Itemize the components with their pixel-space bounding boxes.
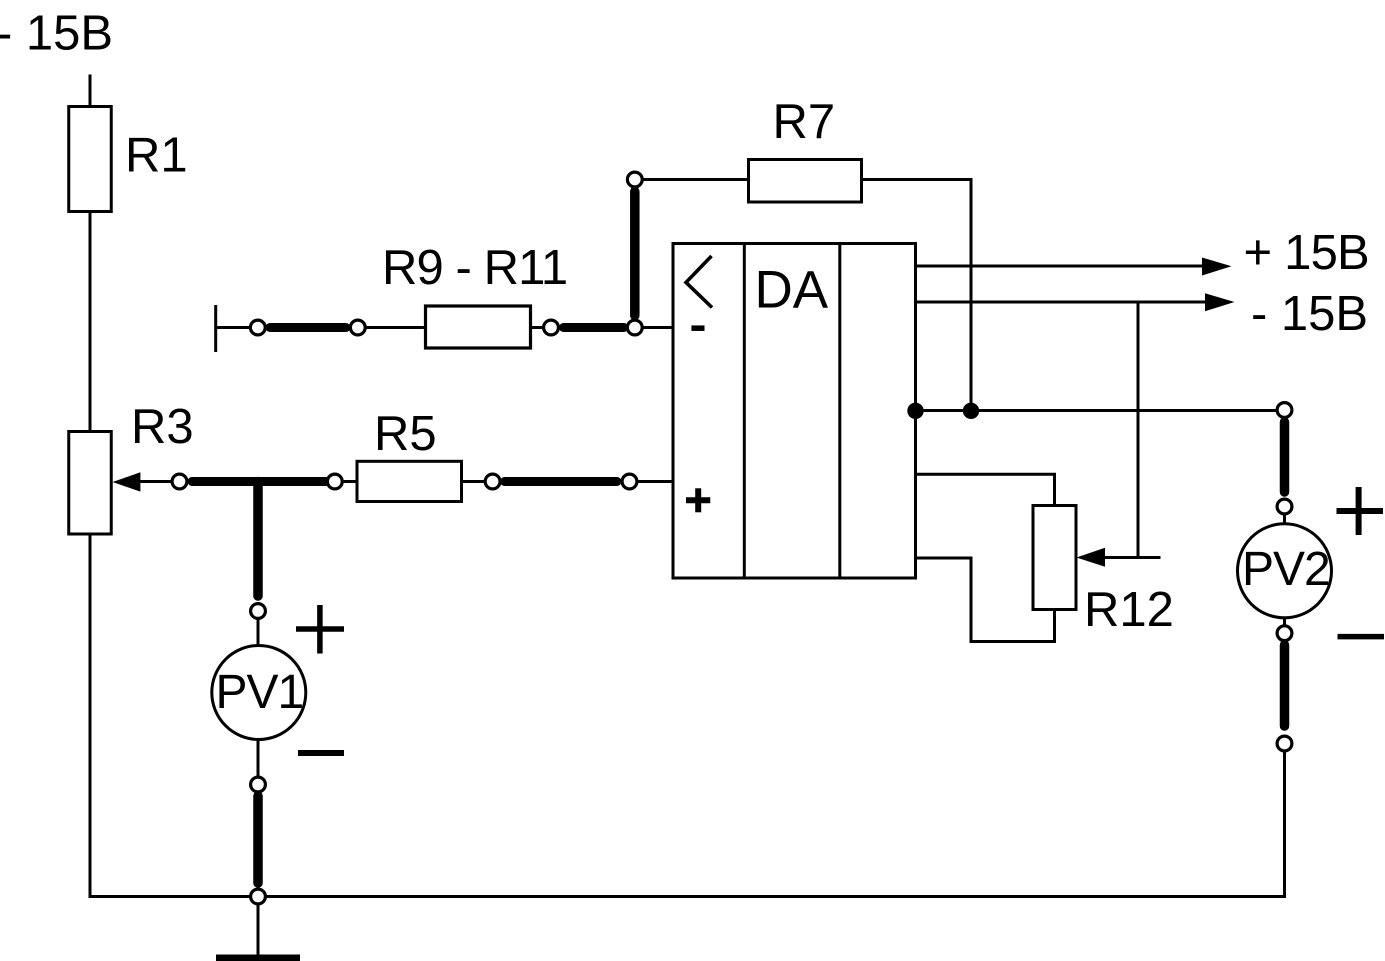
node circle PV1 top [251, 604, 266, 619]
resistor R3 (potentiometer) [69, 432, 112, 535]
label R7 [773, 95, 836, 149]
thick wire branch down to PV1 [253, 482, 263, 597]
op-amp U1 DA box [673, 244, 916, 579]
wire op-amp to R12 bottom (step) [916, 558, 1055, 642]
thin wire arrow to node E [138, 480, 172, 483]
node circle ground junction [251, 889, 266, 904]
svg-text:R9 - R11: R9 - R11 [382, 241, 567, 295]
label -15B [1251, 287, 1368, 341]
svg-text:DA: DA [755, 261, 829, 320]
node circle B [350, 320, 365, 335]
wire to ground symbol [257, 904, 260, 956]
wire stub PV2 top [1283, 514, 1286, 525]
label R12 [1084, 583, 1174, 637]
label +15B [1244, 226, 1369, 280]
resistor R12 (potentiometer) [1033, 506, 1076, 610]
op-amp plus input label [686, 488, 710, 512]
wire -15B to R1 [89, 75, 92, 107]
svg-text:R1: R1 [125, 129, 188, 183]
svg-text:R3: R3 [131, 400, 194, 454]
svg-text:- 15B: - 15B [0, 7, 113, 61]
thick wire PV2 top [1280, 422, 1290, 492]
node circle PV1 bottom [251, 777, 266, 792]
thick wire segment (inverting input chain b) [564, 323, 625, 332]
svg-text:R7: R7 [773, 95, 836, 149]
wire R5 to node G [462, 480, 486, 483]
op-amp chevron symbol [686, 256, 712, 308]
wire stub PV1 bottom [257, 740, 260, 778]
thick wire from R7 node down to inverting node D [630, 192, 640, 316]
net label -15B top-left [0, 7, 113, 61]
resistor R1 [69, 107, 112, 212]
junction dot on op-amp output [907, 403, 923, 419]
label R3 [131, 400, 194, 454]
label R5 [374, 407, 437, 461]
wire R7 to corner and down to output node [862, 180, 972, 411]
label DA [755, 261, 829, 320]
node circle D [627, 320, 642, 335]
node circle E [172, 474, 187, 489]
resistor R7 [749, 160, 862, 203]
svg-text:- 15B: - 15B [1251, 287, 1368, 341]
voltmeter PV2 [1238, 524, 1332, 618]
wire -15B branch down to R12 wiper [1137, 302, 1140, 558]
thick wire segment (inverting input chain a) [270, 323, 346, 332]
node circle PV2 lower a [1277, 626, 1292, 641]
wire R3 down to bottom rail [89, 534, 92, 898]
svg-text:R12: R12 [1084, 583, 1174, 637]
wiper arrow into R3 [113, 472, 173, 491]
wire R1 to R3 [89, 212, 92, 432]
plus label PV1 [296, 605, 344, 654]
label R9 - R11 [382, 241, 567, 295]
thick wire E to F [192, 477, 326, 486]
svg-text:PV1: PV1 [216, 666, 304, 719]
svg-text:R5: R5 [374, 407, 437, 461]
voltmeter PV1 [212, 646, 306, 740]
wire +15B supply [916, 258, 1232, 276]
node circle R7 left [627, 172, 642, 187]
thick wire PV2 bottom [1280, 645, 1290, 726]
input terminal bar (R9-R11 chain) [214, 305, 217, 352]
minus label PV2 [1338, 634, 1385, 640]
plus label PV2 [1337, 487, 1384, 535]
wire op-amp to R12 top [916, 474, 1055, 505]
node circle PV2 lower b [1277, 736, 1292, 751]
R12 wiper arrow [1077, 548, 1161, 567]
wire B to R9-R11 [365, 326, 426, 329]
op-amp minus input label [691, 325, 704, 331]
node circle C [544, 320, 559, 335]
wire terminal to node [216, 326, 251, 329]
minus label PV1 [298, 750, 344, 756]
wire stub PV2 bottom [1283, 618, 1286, 626]
wire R7 node to R7 [642, 178, 749, 181]
thick wire PV1 to ground rail [253, 796, 263, 883]
node circle H [622, 474, 637, 489]
svg-text:PV2: PV2 [1242, 543, 1330, 596]
node circle A [250, 320, 265, 335]
label R1 [125, 129, 188, 183]
wire F to R5 [342, 480, 357, 483]
node circle G [485, 474, 500, 489]
svg-text:+ 15B: + 15B [1244, 226, 1369, 280]
wire -15B supply [916, 293, 1235, 311]
resistor R5 [357, 461, 462, 501]
wire D to op-amp minus input [642, 326, 674, 329]
resistor R9-R11 [426, 306, 531, 348]
bottom rail wire [89, 895, 1285, 898]
node circle PV2 upper [1277, 499, 1292, 514]
junction dot feedback node [963, 403, 979, 419]
thick wire G to H [505, 477, 618, 486]
wire R9-R11 to node C [531, 326, 545, 329]
wire output to PV2 [916, 409, 1285, 412]
node circle PV2 output [1277, 403, 1292, 418]
wire H to op-amp plus input [637, 480, 674, 483]
wire PV2 branch up from bottom rail [1283, 750, 1286, 898]
node circle F [327, 474, 342, 489]
wire stub PV1 top [257, 619, 260, 647]
ground [216, 955, 300, 961]
